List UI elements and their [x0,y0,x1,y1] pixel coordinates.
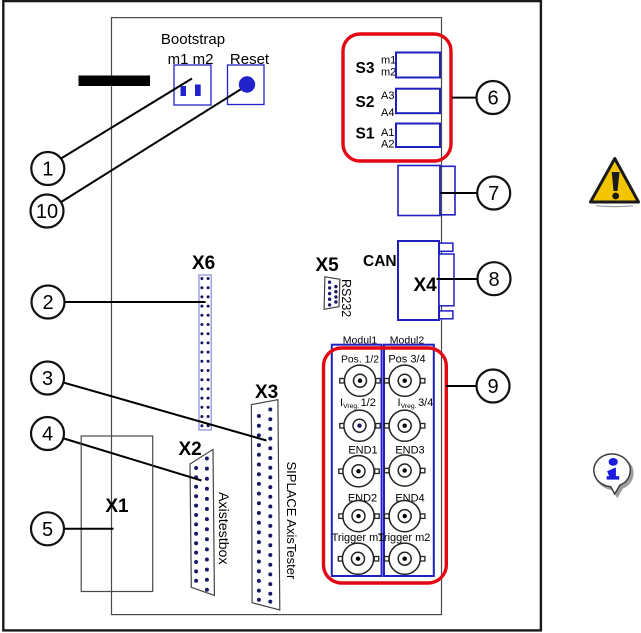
callout 3 [31,362,64,395]
switch S1 [356,124,441,151]
red highlight box switches [343,34,451,161]
svg-text:4: 4 [42,424,53,446]
BNC Trigger m1 [338,543,378,574]
wire callout 8 [437,278,478,280]
svg-text:A1: A1 [381,127,394,139]
BNC Pos. 1/2 [340,365,380,396]
wire callout 4 to X2 [48,434,202,481]
svg-text:A2: A2 [381,139,394,151]
svg-text:5: 5 [42,519,53,541]
svg-text:END3: END3 [395,444,424,456]
svg-text:X2: X2 [179,439,202,460]
svg-text:7: 7 [488,183,499,205]
orientation bar [79,76,151,87]
svg-text:SIPLACE AxisTester: SIPLACE AxisTester [284,462,299,580]
jumper m1 m2 [174,65,211,105]
wire callout 7 [440,192,478,194]
svg-text:m1: m1 [381,54,396,66]
svg-text:3: 3 [42,368,53,390]
callout 1 [31,152,64,185]
wire callout 9 [446,385,477,387]
board outline [112,18,442,615]
BNC IVreg 1/2 [340,410,380,441]
wire callout 6 [452,97,477,99]
svg-text:Pos. 1/2: Pos. 1/2 [341,355,379,366]
BNC IVreg 3/4 [385,410,425,441]
wire callout 5 to X1 [48,528,114,530]
svg-text:S3: S3 [356,60,375,77]
svg-text:Pos 3/4: Pos 3/4 [388,354,425,366]
reset button [228,65,265,105]
callout 7 [477,177,510,210]
svg-text:10: 10 [36,201,58,223]
callout 2 [32,286,65,319]
callout 5 [31,512,64,545]
svg-text:m2: m2 [381,66,396,78]
callout 6 [477,81,510,114]
svg-text:9: 9 [487,376,498,398]
svg-text:S1: S1 [356,126,375,143]
BNC column Modul2 [384,345,434,576]
svg-text:8: 8 [488,269,499,291]
BNC Pos 3/4 [385,365,425,396]
connector X4 [398,241,454,320]
svg-text:Trigger m2: Trigger m2 [378,532,431,544]
svg-text:Trigger m1: Trigger m1 [332,532,385,544]
wire callout 10 to reset [50,89,241,209]
BNC END4 [385,500,425,531]
warning icon [591,159,639,207]
svg-text:S2: S2 [356,94,375,111]
svg-text:RS232: RS232 [339,279,353,317]
connector X6 [199,275,211,430]
svg-text:Axistestbox: Axistestbox [215,492,231,565]
svg-text:2: 2 [42,292,53,314]
info icon [594,454,633,497]
svg-text:1: 1 [42,159,53,181]
BNC Trigger m2 [385,543,425,574]
svg-text:X4: X4 [414,275,438,296]
wire callout 1 to jumper [52,79,192,165]
svg-text:X6: X6 [192,253,215,274]
connector X1 [81,436,153,592]
svg-text:Bootstrap: Bootstrap [161,31,225,48]
connector 7 [398,166,455,216]
connector X5 [324,277,340,310]
svg-text:6: 6 [487,88,498,110]
wire callout 2 to X6 [48,301,206,303]
switch S3 [356,53,441,79]
svg-text:X5: X5 [316,255,340,276]
svg-text:X1: X1 [105,496,129,517]
BNC END1 [339,456,379,487]
switch S2 [356,89,441,119]
svg-text:END1: END1 [348,444,377,456]
callout 8 [478,262,511,295]
callout 4 [31,417,64,450]
BNC column Modul1 [332,345,382,576]
callout 9 [477,370,510,403]
svg-text:A4: A4 [381,107,394,119]
BNC END2 [339,500,379,531]
callout 10 [31,195,64,228]
connector X3 [251,400,279,610]
svg-text:A3: A3 [381,90,394,102]
connector X2 [190,449,214,595]
wire callout 3 to X3 [48,378,267,441]
svg-text:CAN: CAN [363,253,397,270]
red highlight box BNC field [324,348,447,583]
BNC END3 [385,455,425,486]
